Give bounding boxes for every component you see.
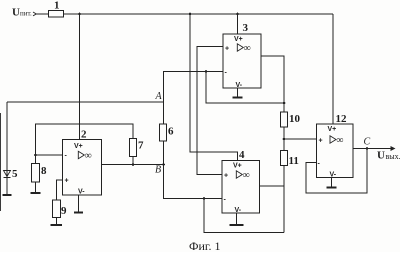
node dot R8 top column [34,154,37,157]
svg-text:V+: V+ [234,36,243,43]
op-amp U2 box [63,140,102,196]
svg-text:∞: ∞ [85,151,92,162]
svg-text:+: + [65,178,69,185]
svg-text:C: C [364,137,371,148]
svg-text:+: + [225,46,229,53]
ground op-amp U12 [331,178,333,188]
label 12 [336,113,348,125]
svg-text:U: U [377,150,385,162]
scan artifact left edge [0,113,2,211]
op-amp U3 triangle [237,44,243,51]
node A label [155,91,163,102]
wire op-amp12 feedback loop [306,149,367,194]
label 7 [138,140,144,152]
wire feedback loop op-amp4 [204,199,284,233]
wire rail to op-amp3 V+ [237,14,239,34]
svg-text:1: 1 [54,0,60,12]
wire op-amp12 output [353,148,392,150]
node junction rail x190 [189,13,192,16]
resistor R7 [130,139,137,157]
node junction rail x80 [78,13,81,16]
svg-text:11: 11 [289,155,299,167]
label 3 [243,22,249,34]
label 6 [168,126,174,138]
svg-text:пит.: пит. [20,10,32,18]
wire op-amp4 output [260,185,285,187]
label 2 [81,129,87,141]
svg-text:B: B [155,165,161,176]
resistor R8 [32,164,40,183]
resistor R10 [281,112,288,127]
node dot R10-R11-op12 [283,138,286,141]
svg-text:V-: V- [235,207,242,214]
wire rail to op-amp12 V+ [332,14,334,124]
ground op-amp U4 [236,213,238,225]
node B label [155,165,161,176]
diode VD5 wire from node A [6,102,8,171]
svg-text:V-: V- [236,82,243,89]
op-amp U4 box [222,161,260,214]
resistor R1 [49,11,64,18]
op-amp U3 pins [225,36,243,89]
svg-text:3: 3 [243,22,249,34]
node C label [364,137,371,148]
wire top rail [64,13,334,15]
wire node B line op-amp2 output [102,164,164,166]
label 1 [54,0,60,12]
wire op-amp3 plus input link [197,47,223,175]
ground diode [6,178,8,195]
ground op-amp U3 [237,88,239,97]
node B dot [162,163,165,166]
svg-text:V-: V- [78,189,85,196]
svg-text:6: 6 [168,126,174,138]
wire rail to op-amp4 V+ [190,14,238,161]
wire A column to op-amp3 minus input [164,72,224,125]
output arrowhead [391,146,396,151]
resistor R9 [53,200,61,218]
wire R10 to op-amp12 plus [283,127,285,151]
svg-text:U: U [12,7,20,19]
svg-text:7: 7 [138,140,144,152]
svg-text:2: 2 [81,129,87,141]
label 4 [239,149,245,161]
ground op-amp U2 [78,195,80,212]
resistor R11 [281,151,288,166]
op-amp U2 triangle [78,151,84,158]
svg-text:+: + [224,173,228,180]
svg-text:∞: ∞ [243,170,250,181]
op-amp U4 pins [224,163,242,215]
input arrow [33,12,36,16]
op-amp U12 triangle [330,136,336,143]
svg-text:V+: V+ [328,126,337,133]
wire op-amp2 minus input from R8 node [36,154,63,156]
svg-text:A: A [155,91,163,102]
svg-text:вых.: вых. [386,152,400,161]
wire R11 bottom to op-amp4 output [283,166,285,233]
wire to op-amp12 plus input [284,138,317,140]
svg-text:+: + [319,138,323,145]
svg-text:∞: ∞ [244,43,251,54]
node dot at R10 column [283,102,286,105]
svg-text:V-: V- [330,172,337,179]
label U_vyh [377,150,400,162]
wire R7 bottom to node B line [132,157,134,165]
svg-text:5: 5 [12,168,18,180]
wire node B down to op-amp4 minus input [164,165,223,199]
op-amp U12 pins [318,126,337,179]
node dot op3 minus feedback tap [205,70,208,73]
label 9 [61,205,67,217]
wire op-amp3 output to R10 [261,56,284,112]
node junction rail x237 [236,13,239,16]
wire input to R1 [37,13,49,15]
label 11 [289,155,299,167]
wire op-amp2 plus input to R9 [57,180,63,200]
svg-text:8: 8 [41,165,47,177]
svg-text:∞: ∞ [336,135,343,146]
wire node A horizontal [7,101,164,103]
op-amp U2 pins [65,143,86,196]
resistor R6 [160,124,167,141]
svg-text:V+: V+ [233,163,242,170]
caption Fig 1 [189,239,220,253]
svg-text:10: 10 [289,113,301,125]
ground R8 [35,182,37,193]
label U_pit [12,7,32,19]
ground R9 [56,218,58,225]
diode VD5 [4,171,11,177]
wire R6 bottom to node B [163,141,165,165]
op-amp U4 triangle [236,171,242,178]
label 5 [12,168,18,180]
op-amp U3 box [223,34,261,88]
wire rail to op-amp2 V+ [79,14,81,140]
wire feedback tap down and right to R10 column [206,72,284,104]
label 8 [41,165,47,177]
svg-text:12: 12 [336,113,348,125]
svg-text:9: 9 [61,205,67,217]
svg-text:Фиг. 1: Фиг. 1 [189,239,220,252]
node dot output C [366,147,369,150]
node dot op4 minus feedback tap [203,197,206,200]
label 10 [289,113,301,125]
svg-text:4: 4 [239,149,245,161]
node dot R7 on B line [132,163,135,166]
wire R8 column up and right to R7 top [36,124,134,182]
svg-text:V+: V+ [74,143,83,150]
op-amp U12 box [317,124,354,178]
